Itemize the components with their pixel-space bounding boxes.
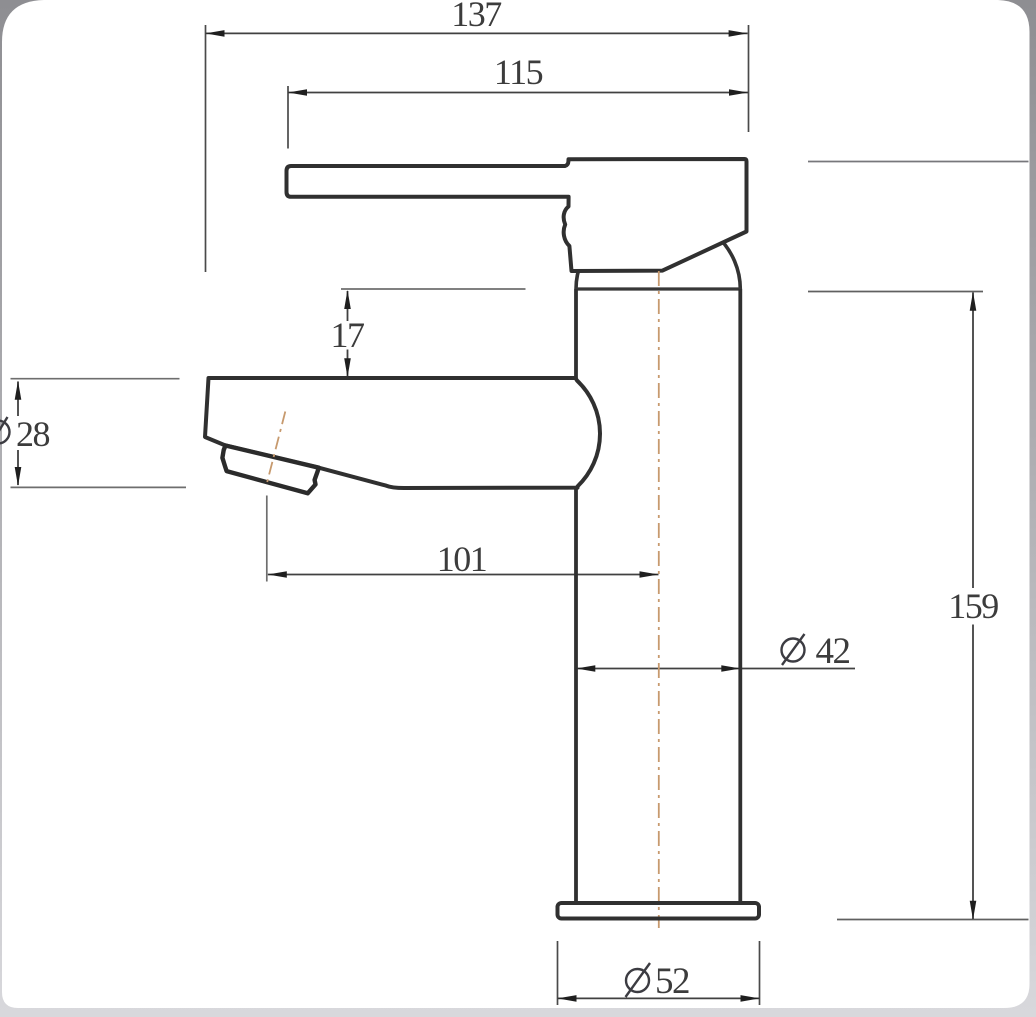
spout body: [205, 378, 600, 488]
svg-text:28: 28: [16, 414, 50, 454]
dimension 17: [347, 291, 349, 321]
svg-text:17: 17: [331, 315, 365, 355]
extension line 159 top: [808, 291, 983, 293]
svg-text:52: 52: [655, 961, 689, 1002]
column right edge: [738, 289, 742, 903]
aerator centerline (slanted): [267, 412, 285, 483]
dimension d28: [17, 382, 19, 417]
vertical centerline top stub: [658, 263, 660, 269]
extension line d52 right: [759, 941, 761, 1005]
diameter symbol d52: [626, 963, 651, 997]
diameter symbol d42: [782, 634, 805, 665]
dome arc of body shoulder: [576, 213, 740, 289]
dimension d52: [558, 997, 760, 999]
dimension 137: [206, 32, 748, 34]
vertical centerline: [658, 271, 660, 928]
dimension 101: [268, 574, 659, 576]
column left edge: [574, 289, 578, 903]
extension line 101 left: [266, 496, 268, 582]
dome base line: [575, 287, 742, 290]
diameter symbol d28 (clipped by page edge): [0, 417, 10, 447]
aerator: [222, 446, 318, 494]
extension line d28 top: [11, 378, 180, 380]
extension line 137 left: [205, 25, 207, 272]
svg-text:159: 159: [948, 586, 998, 626]
svg-text:115: 115: [494, 52, 543, 92]
extension line d52 left: [557, 941, 559, 1005]
base plate fill: [558, 903, 760, 919]
dimension 159: [972, 293, 974, 589]
svg-text:101: 101: [437, 539, 487, 579]
extension line 17 top (dome level): [341, 288, 526, 290]
base plate outline: [558, 903, 760, 919]
extension line 115 left: [287, 86, 289, 149]
extension line 137/115 right: [748, 25, 750, 132]
svg-text:137: 137: [451, 0, 501, 34]
reference line top right: [808, 161, 1029, 163]
dimension 115: [288, 92, 748, 94]
dimension d42: [576, 668, 855, 670]
extension line 159 bottom: [837, 919, 1029, 921]
svg-text:42: 42: [816, 631, 850, 672]
handle lever and head: [287, 159, 747, 271]
extension line d28 bottom: [11, 486, 187, 488]
